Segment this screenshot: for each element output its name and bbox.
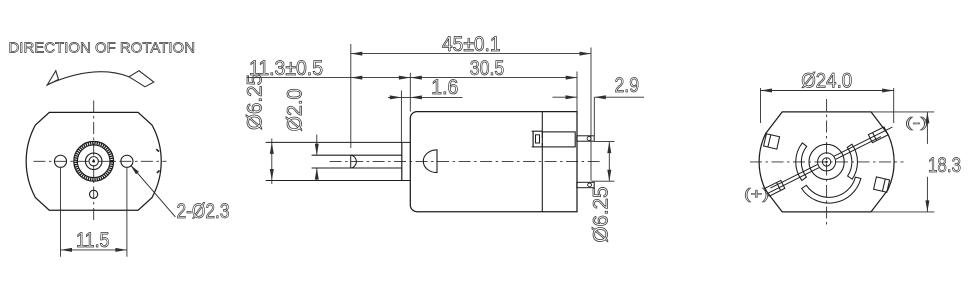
45 left arrow xyxy=(351,52,363,56)
rear view motor outline xyxy=(759,112,894,212)
svg-text:Ø6.25: Ø6.25 xyxy=(244,74,267,130)
45 right arrow xyxy=(580,52,592,56)
terminal block xyxy=(542,132,575,147)
(-) terminal lug xyxy=(868,127,888,143)
svg-text:2.9: 2.9 xyxy=(615,74,640,97)
shaft tip extension line xyxy=(350,44,352,148)
11.5 right extension line xyxy=(126,168,128,257)
svg-text:Ø24.0: Ø24.0 xyxy=(801,70,852,93)
strip extension to (-) label xyxy=(885,127,893,131)
bottom pin hole xyxy=(588,183,592,187)
11.3 left arrow xyxy=(351,76,363,80)
Ø2.0 upper arrow xyxy=(315,144,319,156)
front shaft outer circle xyxy=(85,153,102,170)
Ø2.0 dimension line upper segment xyxy=(316,135,318,156)
(+) terminal lug xyxy=(765,180,785,196)
30.5 left arrow xyxy=(410,76,422,80)
18.3 dimension line lower xyxy=(926,177,928,212)
front boss top extension line (Ø6.25) xyxy=(266,141,411,143)
2.9 dimension right tail xyxy=(594,96,644,98)
body/endcap boundary upper xyxy=(541,112,543,139)
brush strip upper-right upper line xyxy=(834,131,885,156)
body D-shaped vent xyxy=(423,150,437,173)
shaft top line xyxy=(312,154,402,156)
svg-text:45±0.1: 45±0.1 xyxy=(442,33,501,56)
18.3 bottom extension line xyxy=(872,211,935,213)
pin tip extension line xyxy=(593,97,595,136)
shaft tip edge xyxy=(350,155,352,168)
svg-text:DIRECTION OF ROTATION: DIRECTION OF ROTATION xyxy=(9,40,196,57)
front left mounting hole xyxy=(54,155,66,167)
Ø6.25 left down arrow xyxy=(270,169,274,181)
rear vertical centerline xyxy=(826,99,828,227)
Ø2.0 lower arrow xyxy=(315,168,319,180)
brush strip upper-right lower line xyxy=(836,137,881,160)
front small index hole xyxy=(90,190,98,198)
2.9 right outside arrow xyxy=(594,95,606,99)
1.6 left outside arrow xyxy=(390,95,402,99)
svg-text:30.5: 30.5 xyxy=(470,57,505,80)
brush strip lower-left upper line xyxy=(770,165,817,189)
rear boss Ø6.25 top extension line xyxy=(595,141,615,143)
11.5 dimension line xyxy=(61,249,127,251)
bottom terminal pin xyxy=(577,182,594,187)
30.5 right arrow xyxy=(566,76,578,80)
svg-text:(-): (-) xyxy=(905,114,928,130)
svg-text:Ø6.25: Ø6.25 xyxy=(590,187,613,243)
upper-left case pad xyxy=(764,134,780,149)
45±0.1 dimension line xyxy=(351,53,591,55)
brush bracket top edge xyxy=(532,130,543,132)
18.3 down arrow xyxy=(925,200,929,212)
rear small circle xyxy=(822,158,830,166)
shaft bottom line xyxy=(312,167,402,169)
front bearing boss knurl hatch ring xyxy=(76,143,112,179)
rear Ø6.25 dimension line xyxy=(608,142,610,182)
Ø6.25 dimension line (left) xyxy=(271,139,273,185)
2.9 dimension left tail xyxy=(553,96,578,98)
side view horizontal centerline xyxy=(330,161,601,163)
arc left open arrowhead xyxy=(47,71,58,85)
front bearing boss knurled ring inner circle xyxy=(77,145,110,178)
Ø2.0 dimension line lower segment xyxy=(316,168,318,181)
body/endcap boundary lower xyxy=(541,143,543,212)
svg-text:11.3±0.5: 11.3±0.5 xyxy=(249,57,323,80)
front horizontal centerline xyxy=(33,160,166,162)
leader arrowhead at right hole xyxy=(130,165,139,175)
brush bracket inner rect xyxy=(536,135,540,143)
11.5 left extension line xyxy=(60,168,62,257)
arc right open diamond arrowhead xyxy=(129,71,154,87)
11.3/30.5 shared dimension line xyxy=(247,77,577,79)
2.9 left outside arrow xyxy=(566,95,578,99)
top pin hole xyxy=(587,137,591,141)
svg-text:(+): (+) xyxy=(744,186,769,203)
45 right extension line xyxy=(590,48,592,181)
Ø24 right arrow xyxy=(882,89,894,93)
18.3 dimension line upper xyxy=(926,112,928,144)
11.5 left arrow xyxy=(61,248,73,252)
front view motor outline xyxy=(26,112,161,210)
rear boss Ø6.25 bottom extension line xyxy=(592,180,615,182)
front shaft center dot xyxy=(92,160,95,163)
18.3 up arrow xyxy=(925,112,929,124)
svg-text:1.6: 1.6 xyxy=(431,76,458,99)
rear right brush-spring band xyxy=(847,144,857,179)
front boss left edge xyxy=(401,142,403,180)
rear bearing circle xyxy=(809,144,844,179)
Ø24 left extension line xyxy=(760,88,762,123)
11.3 right arrow xyxy=(399,76,411,80)
direction-of-rotation arc xyxy=(47,72,129,85)
Ø24 left arrow xyxy=(761,89,773,93)
body front face extension line xyxy=(409,73,411,112)
motor body outline xyxy=(410,112,577,212)
front vertical centerline xyxy=(93,101,95,224)
Ø24 dimension line xyxy=(761,90,894,92)
top terminal pin xyxy=(577,136,594,141)
11.5 right arrow xyxy=(115,248,127,252)
rear bottom smile band xyxy=(802,177,861,203)
front boss bottom extension line (Ø6.25) xyxy=(266,180,411,182)
rear horizontal centerline xyxy=(750,161,904,163)
rear center dot xyxy=(825,161,827,163)
shaft tip dome arc xyxy=(351,155,356,168)
front right mounting hole xyxy=(121,155,133,167)
brush bracket left edge xyxy=(532,131,534,147)
svg-text:2-Ø2.3: 2-Ø2.3 xyxy=(177,200,230,223)
brush strip lower-left lower line xyxy=(767,168,819,194)
Ø6.25 left up arrow xyxy=(270,142,274,154)
rear left brush-spring band xyxy=(796,143,807,181)
leader line for 2-Ø2.3 xyxy=(131,166,175,217)
svg-text:11.5: 11.5 xyxy=(76,229,110,252)
brush bracket bottom edge xyxy=(532,146,543,148)
cap rear face extension line xyxy=(576,72,578,112)
svg-text:18.3: 18.3 xyxy=(928,154,961,177)
1.6 dimension line with tails xyxy=(388,96,463,98)
front shaft inner circle xyxy=(89,157,98,166)
rear Ø6.25 up arrow xyxy=(607,142,611,154)
svg-text:Ø2.0: Ø2.0 xyxy=(284,89,307,132)
lower-right case pad xyxy=(874,177,890,192)
rear middle circle xyxy=(818,153,836,171)
front bearing boss knurled ring outer circle xyxy=(74,141,114,181)
tick mark on right arc upper xyxy=(156,149,159,151)
1.6 right outside arrow xyxy=(410,95,422,99)
rear Ø6.25 down arrow xyxy=(607,170,611,182)
Ø24 right extension line xyxy=(893,88,895,123)
tick mark on right arc lower xyxy=(157,170,160,173)
18.3 top extension line xyxy=(872,111,935,113)
boss front extension line xyxy=(400,91,402,143)
